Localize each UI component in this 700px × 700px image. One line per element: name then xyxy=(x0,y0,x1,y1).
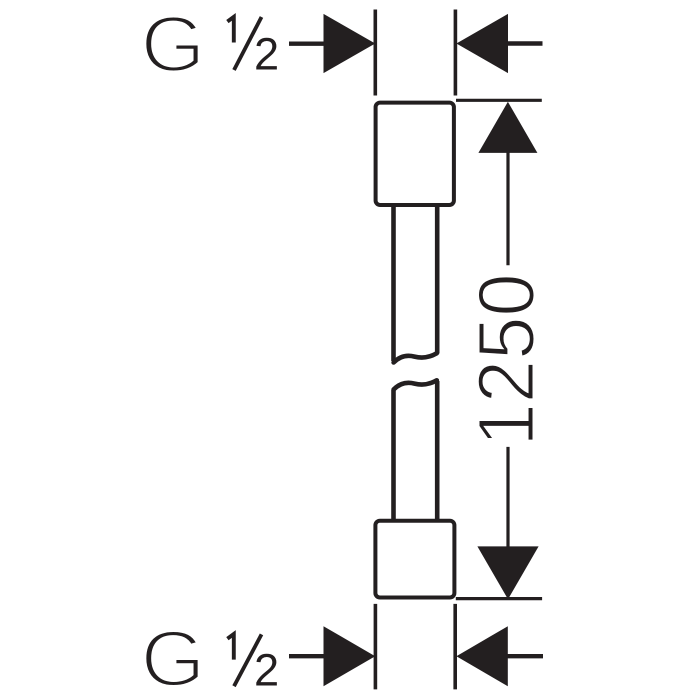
dimension leader line bottom right xyxy=(507,654,543,658)
arrowhead top right (points left) xyxy=(456,14,508,73)
svg-text:G: G xyxy=(141,0,206,89)
dimension leader line top right xyxy=(507,41,543,45)
arrowhead top left (points right) xyxy=(324,14,376,73)
extension line 1250 top xyxy=(456,99,542,102)
svg-text:1250: 1250 xyxy=(462,273,551,446)
dimension line 1250 upper segment xyxy=(506,152,509,265)
svg-text:G: G xyxy=(141,615,206,700)
arrowhead 1250 bottom (points down) xyxy=(477,546,538,599)
svg-text:2: 2 xyxy=(254,645,279,696)
break line lower xyxy=(394,380,437,389)
hose tube lower left wall xyxy=(391,390,396,520)
label 1/2 top numerator 1 xyxy=(227,17,233,43)
dimension leader line bottom left xyxy=(289,654,325,658)
break line upper xyxy=(394,353,437,362)
label 1/2 bottom numerator 1 xyxy=(227,634,233,660)
extension line bottom left xyxy=(374,604,378,690)
arrowhead 1250 top (points up) xyxy=(478,102,537,153)
hose fitting bottom xyxy=(375,521,454,598)
extension line bottom right xyxy=(453,604,457,690)
label 1/2 bottom fraction slash xyxy=(234,634,262,686)
dimension line 1250 lower segment xyxy=(506,447,509,547)
dimension leader line top left xyxy=(289,42,325,46)
extension line 1250 bottom xyxy=(456,597,542,600)
svg-text:2: 2 xyxy=(254,28,279,79)
hose tube upper left wall xyxy=(391,206,396,361)
extension line top left xyxy=(373,10,377,96)
hose tube upper right wall xyxy=(435,206,440,354)
hose fitting top xyxy=(376,103,454,205)
hose tube lower right wall xyxy=(435,381,440,520)
arrowhead bottom left (points right) xyxy=(324,626,376,686)
extension line top right xyxy=(454,10,458,96)
arrowhead bottom right (points left) xyxy=(456,626,507,686)
label 1/2 top fraction slash xyxy=(234,17,262,70)
